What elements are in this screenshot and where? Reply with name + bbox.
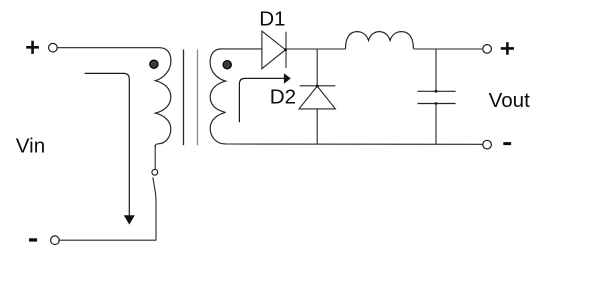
transformer T1 primary polarity dot <box>150 60 158 68</box>
current arrow primary loop <box>85 73 135 224</box>
switch SW1 contact <box>152 169 158 175</box>
terminal Vout - <box>483 140 492 149</box>
transformer T1 primary winding <box>155 48 171 148</box>
wire bottom right rail <box>226 143 483 145</box>
diode D2 <box>299 86 335 109</box>
wire D2 cathode to top rail <box>316 49 318 86</box>
svg-text:Vin: Vin <box>16 135 45 158</box>
wire inductor to capacitor tap and output + <box>413 48 483 50</box>
diode D1 <box>262 31 286 69</box>
label Vout + polarity <box>501 42 514 54</box>
transformer T1 secondary winding <box>210 49 226 144</box>
wire top-left rail <box>57 47 160 49</box>
wire node A to inductor <box>317 48 346 50</box>
wire bottom left rail <box>59 239 156 241</box>
label Vin - polarity <box>29 238 37 241</box>
inductor L1 <box>346 32 414 49</box>
transformer T1 secondary polarity dot <box>223 61 231 69</box>
switch SW1 blade <box>153 177 156 240</box>
svg-text:D2: D2 <box>270 86 296 109</box>
capacitor C1 top lead <box>435 49 437 91</box>
capacitor C1 <box>418 91 456 103</box>
svg-text:D1: D1 <box>259 8 285 31</box>
terminal Vout + <box>483 45 492 54</box>
transformer T1 core <box>183 50 185 146</box>
wire D1 cathode to node A <box>286 48 317 50</box>
capacitor C1 bottom lead <box>435 104 437 145</box>
label Vin + polarity <box>26 41 39 54</box>
junction at D1 cathode <box>284 48 287 51</box>
terminal Vin + <box>49 43 58 52</box>
wire primary bottom lead <box>154 145 156 169</box>
terminal Vin - <box>51 236 60 245</box>
wire D2 anode to bottom rail <box>316 109 318 144</box>
current arrow secondary loop <box>239 73 290 122</box>
label Vout - polarity <box>503 142 511 145</box>
junction at capacitor top plate <box>435 90 438 93</box>
wire secondary top to D1 anode <box>221 48 262 50</box>
svg-text:Vout: Vout <box>489 89 531 112</box>
junction at D2 cathode <box>316 85 319 88</box>
junction at capacitor bottom plate <box>435 102 438 105</box>
